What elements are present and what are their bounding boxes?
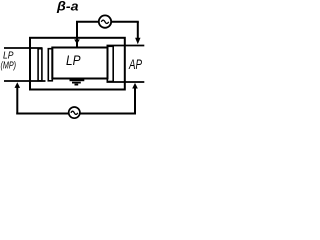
AC source G1 (circle) [99,15,111,27]
wire: G1 to right drop [112,21,139,23]
plate 3 (right) [107,46,113,81]
wire: bottom-right riser [134,88,136,114]
wire: right bottom feed (АР line) [107,81,145,83]
svg-text:AP: AP [128,56,142,72]
G2 sine tilde [71,111,78,114]
waveguide body (outer box) [30,38,125,90]
wire: stem corner to AC source G1 [76,21,99,23]
ground [70,79,85,85]
svg-text:LP: LP [66,53,81,68]
plate 1 (left pair) [38,49,42,81]
wire: left bottom feed (МР line) [4,80,46,82]
wire: bottom-left riser [16,87,18,115]
wire: bottom horizontal left [16,113,69,115]
G1 sine tilde [101,20,108,23]
arrow into МР line (up) [15,82,21,88]
arrow onto АР feed line (down) [135,38,140,45]
svg-text:(MP): (MP) [1,60,17,72]
wire: bottom horizontal right [80,113,136,115]
AC source G2 (circle) [69,107,80,118]
arrow into ЛР section (down) [74,39,80,44]
arrow into АР line bottom (up) [132,83,138,89]
wire: stem from top loop down into ЛР section [76,22,78,47]
svg-text:β-a: β-a [56,0,79,14]
wire: left top feed (МР line) [4,47,43,49]
wire: right drop down to АР feed [137,22,139,39]
ЛР section (inner box) [52,48,107,79]
plate 2 (left pair) [48,49,52,81]
wire: right top feed (АР line) [107,45,145,47]
